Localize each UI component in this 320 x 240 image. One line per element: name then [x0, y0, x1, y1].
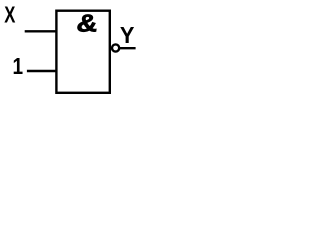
NAND gate U1 body — [56, 11, 109, 93]
wire input 1 — [27, 70, 57, 72]
svg-text:X: X — [4, 3, 16, 28]
wire output Y — [120, 47, 136, 49]
svg-text:&: & — [75, 9, 99, 36]
inversion bubble — [112, 44, 119, 51]
svg-text:Y: Y — [120, 22, 135, 48]
wire input X — [25, 30, 57, 32]
svg-text:1: 1 — [13, 54, 24, 79]
